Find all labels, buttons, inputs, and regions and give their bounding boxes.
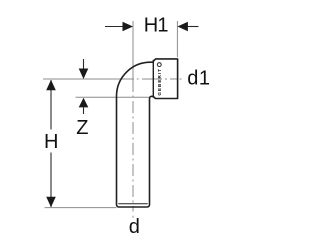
wire: H1 right extension line bbox=[176, 21, 178, 57]
svg-text:GEBERIT: GEBERIT bbox=[157, 69, 162, 96]
svg-text:H1: H1 bbox=[144, 15, 169, 37]
svg-text:d1: d1 bbox=[187, 67, 210, 89]
dimension H1 left arrow bbox=[105, 22, 133, 32]
socket face edge line bbox=[152, 60, 154, 98]
dimension H1 right arrow bbox=[177, 22, 198, 32]
dimension Z lower arrow (points up) bbox=[79, 98, 89, 114]
dimension H line + arrows bbox=[46, 80, 56, 207]
wire: horizontal socket axis (dash-dot) bbox=[43, 78, 182, 80]
dimension Z upper arrow (points down) bbox=[79, 59, 89, 79]
svg-text:d: d bbox=[129, 216, 140, 238]
svg-text:Z: Z bbox=[76, 117, 88, 139]
wire: H bottom extension line bbox=[45, 207, 117, 209]
elbow fitting outline bbox=[117, 59, 178, 207]
socket embossed text (rotated) bbox=[157, 63, 162, 96]
pipe end inner edge bbox=[118, 203, 147, 205]
wire: vertical center axis of pipe (dash-dot) bbox=[132, 21, 134, 218]
svg-text:H: H bbox=[44, 131, 58, 153]
wire: Z lower extension line bbox=[76, 96, 150, 98]
